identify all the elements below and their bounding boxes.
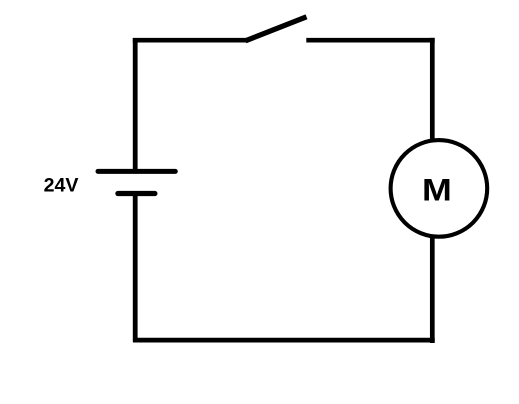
wire: right vertical segment (motor down to bottom-right corner) <box>430 236 435 343</box>
svg-text:24V: 24V <box>44 175 79 197</box>
wire: bottom horizontal segment <box>133 338 435 343</box>
wire: left vertical segment (top corner down to battery positive plate) <box>133 38 138 171</box>
battery B1 positive plate (long) <box>98 169 175 174</box>
wire: top horizontal segment (left corner to switch pivot) <box>133 38 247 43</box>
svg-text:M: M <box>422 173 452 208</box>
wire: right vertical segment (top corner down to motor) <box>430 38 435 141</box>
switch S1 open blade <box>246 17 307 41</box>
motor U1 circle <box>391 140 488 237</box>
wire: left vertical segment (battery negative plate down to bottom corner) <box>133 194 138 343</box>
wire: top horizontal segment (switch gap to top-right corner) <box>306 38 434 43</box>
battery B1 negative plate (short) <box>118 191 155 196</box>
